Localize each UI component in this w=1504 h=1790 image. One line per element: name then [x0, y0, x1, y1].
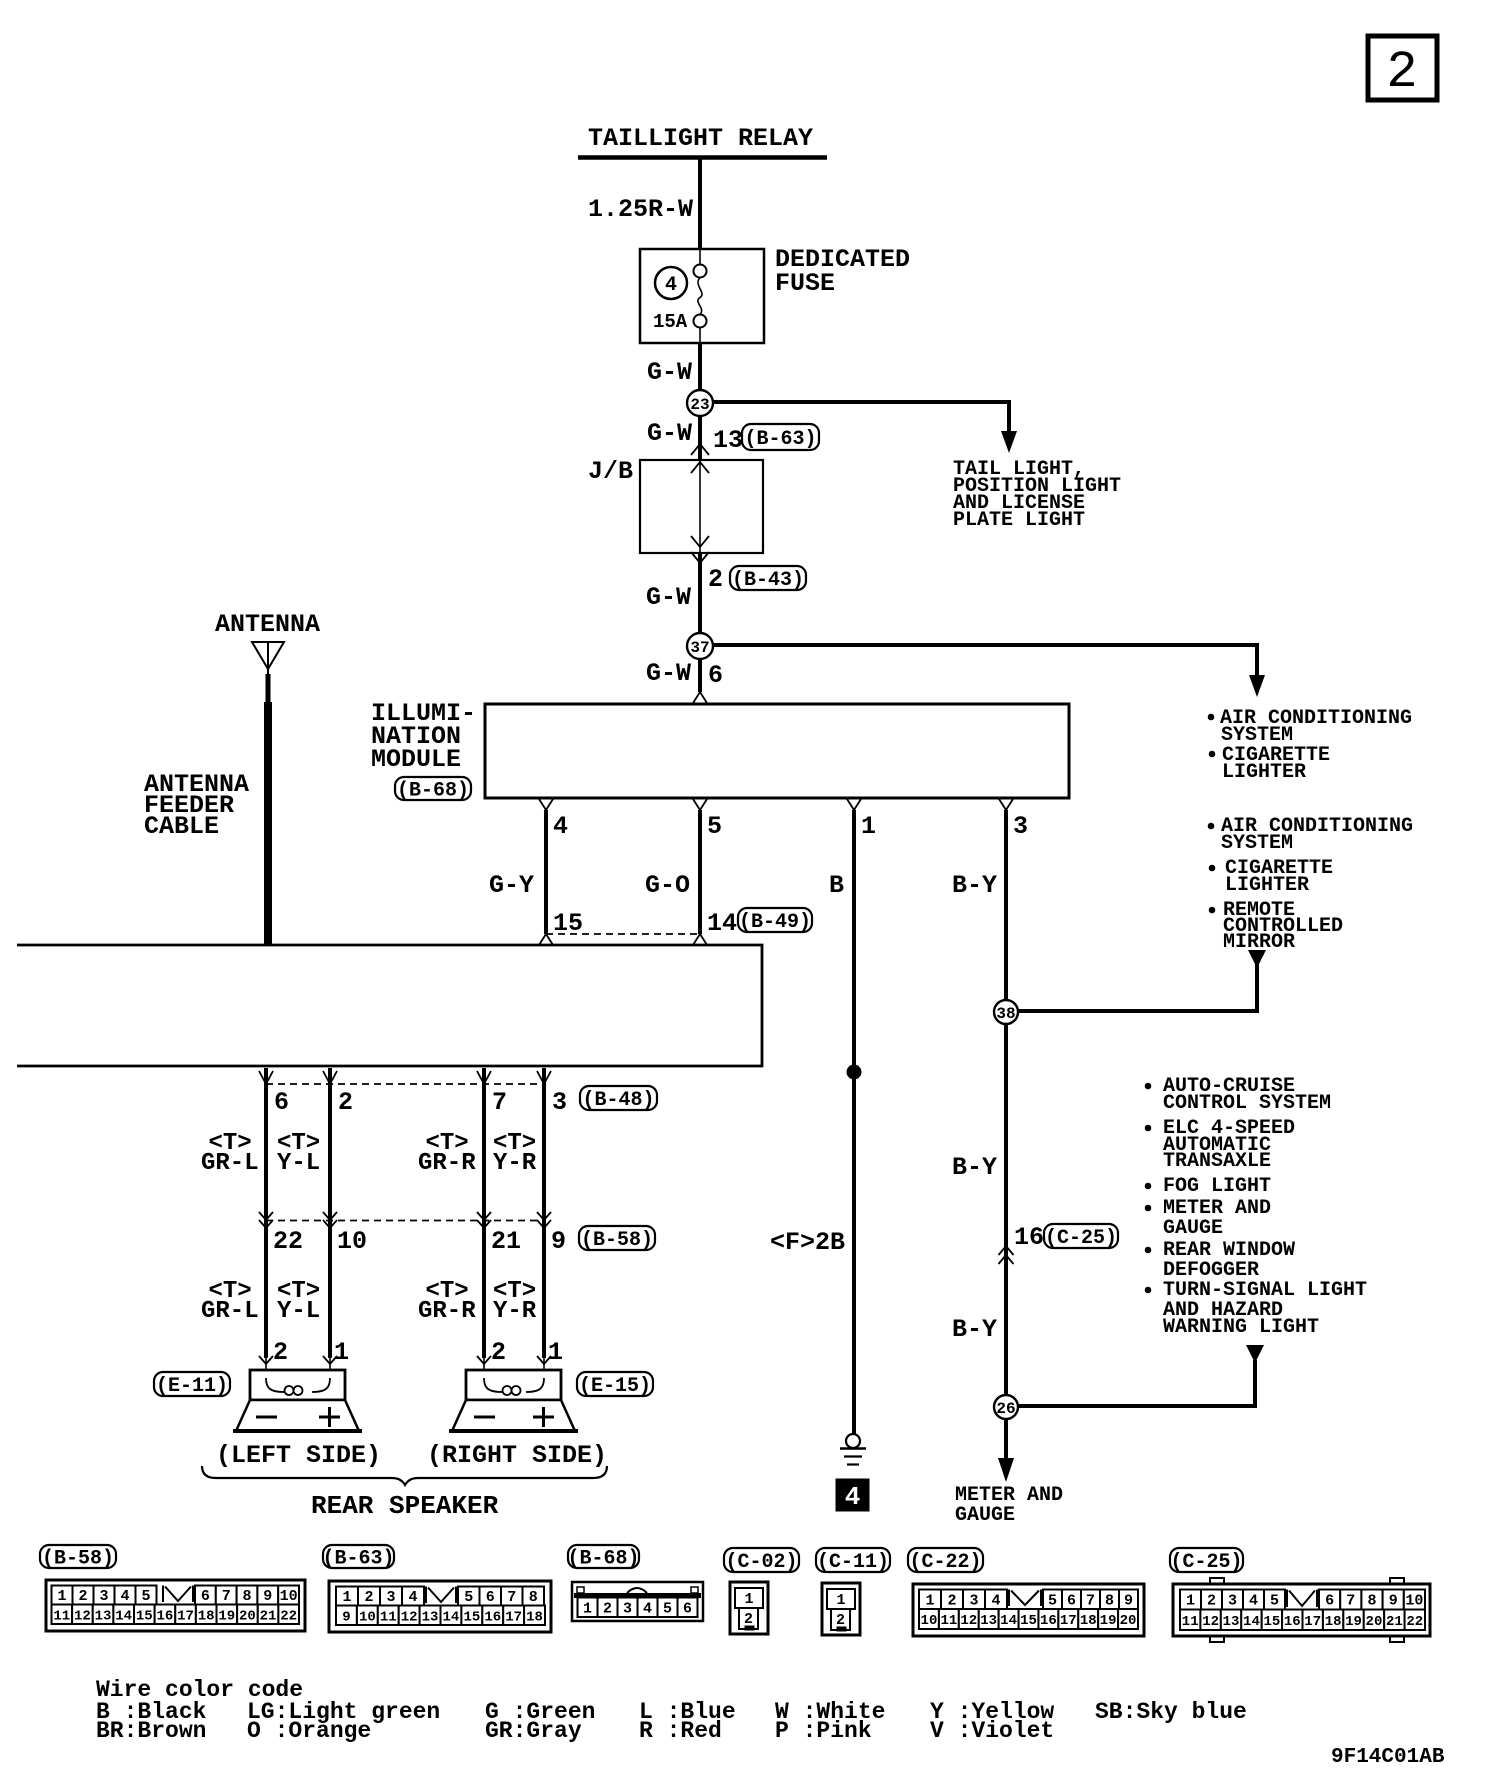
svg-text:19: 19 [1100, 1613, 1117, 1629]
load list from node 37 [1208, 707, 1412, 784]
svg-text:13: 13 [1223, 1614, 1240, 1630]
antenna feeder cable [264, 702, 272, 945]
illumination module box [485, 704, 1069, 798]
ground symbol [840, 1434, 866, 1465]
svg-text:4: 4 [1249, 1593, 1258, 1610]
svg-text:10: 10 [1405, 1593, 1423, 1610]
svg-text:6: 6 [201, 1588, 210, 1605]
svg-text:(C-22): (C-22) [909, 1551, 981, 1574]
svg-text:9: 9 [1389, 1593, 1398, 1610]
svg-text:LIGHTER: LIGHTER [1225, 874, 1309, 897]
pin label 10 mid [337, 1227, 367, 1256]
svg-text:(B-43): (B-43) [732, 569, 804, 592]
svg-text:GAUGE: GAUGE [1163, 1217, 1223, 1240]
pin label 2 below J/B [708, 565, 723, 594]
antenna label [215, 610, 320, 639]
pin label 7 top [492, 1088, 507, 1117]
svg-text:1: 1 [861, 812, 876, 841]
svg-text:16: 16 [1284, 1614, 1301, 1630]
pin label 1 left speaker [334, 1338, 349, 1367]
svg-text:4: 4 [553, 812, 568, 841]
svg-text:16: 16 [157, 1608, 174, 1624]
svg-text:1: 1 [342, 1589, 351, 1606]
svg-text:19: 19 [1345, 1614, 1362, 1630]
load list from node 38 [1208, 815, 1413, 954]
svg-text:CONTROL SYSTEM: CONTROL SYSTEM [1163, 1092, 1331, 1115]
svg-text:<F>2B: <F>2B [770, 1228, 845, 1257]
branch wire node 26 to turn-signal [1018, 1345, 1264, 1406]
chevron above J/B [691, 444, 709, 455]
wire B pin 1 to ground [852, 810, 856, 1434]
svg-text:17: 17 [1060, 1613, 1077, 1629]
right rear speaker plus terminal [533, 1407, 554, 1427]
svg-text:21: 21 [491, 1227, 521, 1256]
svg-text:9F14C01AB: 9F14C01AB [1331, 1746, 1445, 1769]
svg-text:9: 9 [263, 1588, 272, 1605]
connector ref E-15 [577, 1372, 653, 1398]
pin label 14 [707, 909, 737, 938]
svg-text:(RIGHT SIDE): (RIGHT SIDE) [427, 1441, 607, 1470]
svg-text:1: 1 [925, 1592, 934, 1609]
svg-text:G-O: G-O [645, 871, 690, 900]
svg-text:13: 13 [713, 426, 743, 455]
branch wire node 38 to remote mirror [1018, 950, 1266, 1011]
wire label G-W above J/B [647, 419, 692, 448]
svg-text:20: 20 [1366, 1614, 1383, 1630]
svg-text:12: 12 [74, 1608, 91, 1624]
svg-text:20: 20 [1120, 1613, 1137, 1629]
left rear speaker terminal box [250, 1370, 345, 1400]
svg-text:(C-02): (C-02) [725, 1551, 797, 1574]
svg-text:11: 11 [380, 1609, 397, 1625]
svg-text:10: 10 [280, 1588, 298, 1605]
svg-text:G-W: G-W [647, 419, 692, 448]
junction block J/B label [588, 457, 633, 486]
dashed junction line B-58 [266, 1220, 544, 1222]
wire 1.25R-W from taillight relay [698, 159, 702, 250]
svg-text:(B-58): (B-58) [42, 1547, 114, 1570]
rear speaker wire GR-L [259, 1068, 273, 1378]
svg-text:14: 14 [1000, 1613, 1017, 1629]
svg-text:5: 5 [707, 812, 722, 841]
svg-text:BR:Brown: BR:Brown [96, 1718, 206, 1744]
svg-text:11: 11 [53, 1608, 70, 1624]
connector ref B-68 label [395, 777, 471, 802]
svg-text:11: 11 [940, 1613, 957, 1629]
svg-text:10: 10 [921, 1613, 938, 1629]
svg-text:GR-L: GR-L [201, 1298, 259, 1325]
connector ref B-63 inline [742, 424, 819, 451]
svg-text:13: 13 [980, 1613, 997, 1629]
connector B-68 label [567, 1545, 639, 1570]
svg-text:2: 2 [491, 1338, 506, 1367]
wire label B-Y upper [952, 871, 997, 900]
svg-text:Y-L: Y-L [277, 1298, 320, 1325]
svg-text:1.25R-W: 1.25R-W [588, 195, 693, 224]
fork pin 5 [693, 799, 707, 810]
page number 2 box [1368, 36, 1437, 102]
junction block J/B box [640, 460, 763, 553]
branch wire node 23 to tail light [713, 402, 1017, 453]
svg-text:38: 38 [996, 1005, 1015, 1023]
svg-text:3: 3 [99, 1588, 108, 1605]
svg-text:1: 1 [548, 1338, 563, 1367]
wire label G-Y [489, 871, 534, 900]
svg-text:P :Pink: P :Pink [775, 1718, 872, 1744]
pin label 6 top [274, 1088, 289, 1117]
svg-text:2: 2 [364, 1589, 373, 1606]
svg-text:3: 3 [552, 1088, 567, 1117]
right side label [427, 1441, 607, 1470]
antenna feeder cable label [144, 770, 249, 841]
svg-text:GAUGE: GAUGE [955, 1504, 1015, 1527]
svg-text:O :Orange: O :Orange [247, 1718, 371, 1744]
svg-text:18: 18 [198, 1608, 215, 1624]
arrow to meter and gauge [998, 1458, 1014, 1482]
svg-text:14: 14 [1243, 1614, 1260, 1630]
wire tag <T> Y-R row 1 [493, 1130, 537, 1177]
svg-text:15A: 15A [653, 311, 688, 333]
svg-text:3: 3 [386, 1589, 395, 1606]
right rear speaker minus terminal [474, 1416, 495, 1419]
svg-text:8: 8 [1105, 1592, 1114, 1609]
svg-text:13: 13 [422, 1609, 439, 1625]
svg-text:10: 10 [337, 1227, 367, 1256]
junction dot on wire B [847, 1065, 861, 1079]
svg-text:G-W: G-W [646, 659, 691, 688]
fork pin 5 lower [693, 934, 707, 945]
svg-text:(B-58): (B-58) [581, 1229, 653, 1252]
svg-text:G-W: G-W [647, 358, 692, 387]
svg-text:4: 4 [845, 1482, 861, 1512]
connector B-58 label [40, 1545, 116, 1570]
svg-text:SYSTEM: SYSTEM [1221, 832, 1293, 855]
connector ref E-11 [154, 1372, 230, 1398]
svg-text:(B-48): (B-48) [582, 1089, 654, 1112]
wire tag <T> Y-R row 2 [493, 1278, 537, 1325]
svg-text:12: 12 [960, 1613, 977, 1629]
svg-text:5: 5 [141, 1588, 150, 1605]
svg-text:Y-R: Y-R [493, 1298, 537, 1325]
wire label G-O [645, 871, 690, 900]
svg-text:R :Red: R :Red [639, 1718, 722, 1744]
svg-text:1: 1 [57, 1588, 66, 1605]
node 37 [687, 633, 713, 659]
svg-text:14: 14 [707, 909, 737, 938]
wire label B-Y lower [952, 1315, 997, 1344]
svg-text:GR-L: GR-L [201, 1150, 259, 1177]
left rear speaker plus terminal [319, 1407, 340, 1427]
svg-text:4: 4 [991, 1592, 1000, 1609]
pin label 5 [707, 812, 722, 841]
svg-text:B-Y: B-Y [952, 1153, 997, 1182]
svg-text:(C-25): (C-25) [1170, 1551, 1242, 1574]
wire G-W fuse to node 23 [698, 343, 702, 460]
svg-text:MODULE: MODULE [371, 745, 461, 774]
wire G-Y pin 4 [544, 810, 548, 934]
chevron below J/B [691, 552, 709, 563]
rear speaker wire Y-L [323, 1068, 337, 1378]
svg-text:FUSE: FUSE [775, 269, 835, 298]
wire tag <T> GR-R row 1 [418, 1130, 476, 1177]
pin label 1 [861, 812, 876, 841]
svg-text:TRANSAXLE: TRANSAXLE [1163, 1150, 1271, 1173]
svg-text:16: 16 [1014, 1223, 1044, 1252]
svg-text:10: 10 [359, 1609, 376, 1625]
svg-text:LIGHTER: LIGHTER [1222, 761, 1306, 784]
wire label F 2B [770, 1228, 845, 1257]
svg-text:3: 3 [1013, 812, 1028, 841]
svg-text:1: 1 [1186, 1593, 1195, 1610]
dedicated fuse box [640, 249, 764, 343]
svg-text:(LEFT SIDE): (LEFT SIDE) [216, 1441, 381, 1470]
connector ref B-58 inline [579, 1226, 655, 1252]
svg-text:PLATE LIGHT: PLATE LIGHT [953, 509, 1085, 532]
drawing number [1331, 1746, 1445, 1769]
dashed junction line B-48 [266, 1083, 544, 1085]
svg-text:12: 12 [401, 1609, 418, 1625]
fork pin 4 [539, 799, 553, 810]
left rear speaker cone [233, 1400, 362, 1431]
tail light position light list [953, 458, 1121, 532]
svg-text:6: 6 [486, 1589, 495, 1606]
svg-text:2: 2 [744, 1611, 753, 1628]
fork pin 6 into module [693, 692, 707, 703]
svg-text:4: 4 [665, 274, 677, 297]
pin label 13 [713, 426, 743, 455]
wire G-W J/B to module [698, 553, 702, 692]
right rear speaker terminal box [466, 1370, 561, 1400]
svg-text:7: 7 [1346, 1593, 1355, 1610]
radio cassette box (unnamed, open left) [17, 945, 762, 1066]
svg-text:7: 7 [492, 1088, 507, 1117]
svg-text:6: 6 [1325, 1593, 1334, 1610]
svg-text:13: 13 [95, 1608, 112, 1624]
connector C-25 label [1170, 1548, 1243, 1574]
svg-text:GR-R: GR-R [418, 1298, 476, 1325]
svg-text:(B-68): (B-68) [567, 1547, 639, 1570]
svg-text:3: 3 [1228, 1593, 1237, 1610]
pin label 4 [553, 812, 568, 841]
svg-text:ANTENNA: ANTENNA [215, 610, 320, 639]
pin label 6 [708, 661, 723, 690]
connector ref B-43 inline [730, 566, 806, 592]
svg-text:5: 5 [1048, 1592, 1057, 1609]
svg-text:8: 8 [1367, 1593, 1376, 1610]
wire label 1.25R-W [588, 195, 693, 224]
svg-text:17: 17 [1304, 1614, 1321, 1630]
svg-text:2: 2 [1386, 43, 1417, 102]
svg-text:5: 5 [663, 1600, 672, 1617]
svg-text:TAILLIGHT RELAY: TAILLIGHT RELAY [588, 124, 813, 153]
wire tag <T> GR-R row 2 [418, 1278, 476, 1325]
dashed junction line B-49 [546, 933, 700, 935]
svg-text:B-Y: B-Y [952, 871, 997, 900]
pin label 3 top [552, 1088, 567, 1117]
svg-text:11: 11 [1182, 1614, 1199, 1630]
wire tag <T> GR-L row 2 [201, 1278, 259, 1325]
load list from node 26 [1145, 1075, 1367, 1339]
pin label 16 [1014, 1223, 1044, 1252]
svg-text:4: 4 [408, 1589, 417, 1606]
svg-text:9: 9 [1124, 1592, 1133, 1609]
svg-text:SB:Sky blue: SB:Sky blue [1095, 1699, 1247, 1725]
svg-text:14: 14 [443, 1609, 460, 1625]
svg-text:17: 17 [505, 1609, 522, 1625]
connector ref B-49 inline [738, 908, 812, 934]
svg-text:18: 18 [526, 1609, 543, 1625]
svg-text:1: 1 [583, 1600, 592, 1617]
pin label 2 top [338, 1088, 353, 1117]
illumination module label [371, 699, 476, 774]
svg-text:CABLE: CABLE [144, 812, 219, 841]
svg-text:2: 2 [273, 1338, 288, 1367]
svg-text:(B-63): (B-63) [744, 428, 816, 451]
pin label 22 mid [273, 1227, 303, 1256]
svg-text:(B-68): (B-68) [397, 779, 469, 802]
fork pin 4 lower [539, 934, 553, 945]
right rear speaker voice coil [484, 1378, 544, 1395]
pin label 1 right speaker [548, 1338, 563, 1367]
svg-text:5: 5 [464, 1589, 473, 1606]
pin label 3 [1013, 812, 1028, 841]
svg-text:16: 16 [484, 1609, 501, 1625]
svg-text:2: 2 [603, 1600, 612, 1617]
pin label 2 left speaker [273, 1338, 288, 1367]
svg-text:G-Y: G-Y [489, 871, 534, 900]
connector C-02 pinout [730, 1582, 768, 1634]
svg-text:16: 16 [1040, 1613, 1057, 1629]
connector B-63 pinout [329, 1581, 551, 1632]
wire label G-W upper [647, 358, 692, 387]
svg-text:18: 18 [1080, 1613, 1097, 1629]
svg-text:20: 20 [239, 1608, 256, 1624]
pin label 21 mid [491, 1227, 521, 1256]
svg-text:7: 7 [1086, 1592, 1095, 1609]
connector B-58 pinout [46, 1580, 305, 1631]
svg-text:2: 2 [708, 565, 723, 594]
svg-text:REAR SPEAKER: REAR SPEAKER [311, 1491, 499, 1521]
svg-text:6: 6 [683, 1600, 692, 1617]
fuse rating 15A [653, 311, 688, 333]
svg-text:26: 26 [996, 1400, 1015, 1418]
svg-text:2: 2 [836, 1612, 845, 1629]
wire label G-W at module [646, 659, 691, 688]
svg-text:2: 2 [78, 1588, 87, 1605]
svg-text:22: 22 [1406, 1614, 1423, 1630]
fork pin 3 [999, 799, 1013, 810]
dedicated fuse label [775, 245, 910, 298]
wire color code legend [96, 1677, 1247, 1744]
wire label G-W below J/B [646, 583, 691, 612]
svg-text:21: 21 [260, 1608, 277, 1624]
svg-text:(E-11): (E-11) [156, 1375, 228, 1398]
wire B-Y pin 3 [1004, 810, 1008, 1460]
rear speaker wire Y-R [537, 1068, 551, 1378]
svg-text:B: B [829, 871, 844, 900]
svg-text:6: 6 [274, 1088, 289, 1117]
taillight relay header label [578, 124, 827, 158]
connector ref B-48 inline [580, 1086, 657, 1112]
left rear speaker minus terminal [256, 1416, 277, 1419]
svg-text:(E-15): (E-15) [579, 1375, 651, 1398]
left side label [216, 1441, 381, 1470]
svg-text:V :Violet: V :Violet [930, 1718, 1054, 1744]
rear speaker wire GR-R [477, 1068, 491, 1378]
svg-text:15: 15 [1020, 1613, 1037, 1629]
connector C-22 label [908, 1548, 983, 1574]
svg-text:2: 2 [947, 1592, 956, 1609]
svg-text:14: 14 [115, 1608, 132, 1624]
svg-text:G-W: G-W [646, 583, 691, 612]
svg-text:19: 19 [218, 1608, 235, 1624]
connector C-22 pinout [913, 1584, 1144, 1636]
connector B-63 label [322, 1545, 394, 1570]
right rear speaker cone [449, 1400, 578, 1431]
pin label 2 right speaker [491, 1338, 506, 1367]
svg-text:WARNING LIGHT: WARNING LIGHT [1163, 1316, 1319, 1339]
branch wire node 37 to air conditioning [713, 645, 1265, 697]
wire tag <T> GR-L row 1 [201, 1130, 259, 1177]
svg-text:2: 2 [1207, 1593, 1216, 1610]
svg-text:1: 1 [334, 1338, 349, 1367]
wire through J/B [699, 460, 701, 553]
svg-text:22: 22 [273, 1227, 303, 1256]
svg-text:7: 7 [222, 1588, 231, 1605]
antenna symbol [252, 642, 284, 702]
svg-text:3: 3 [969, 1592, 978, 1609]
svg-text:8: 8 [242, 1588, 251, 1605]
node 23 [687, 390, 713, 416]
pin label 15 [553, 909, 583, 938]
svg-text:Y-L: Y-L [277, 1150, 320, 1177]
svg-text:17: 17 [177, 1608, 194, 1624]
svg-text:15: 15 [136, 1608, 153, 1624]
pin label 9 mid [551, 1227, 566, 1256]
svg-text:1: 1 [744, 1591, 753, 1608]
svg-text:12: 12 [1202, 1614, 1219, 1630]
svg-text:15: 15 [1263, 1614, 1280, 1630]
svg-text:(B-63): (B-63) [322, 1547, 394, 1570]
svg-text:8: 8 [529, 1589, 538, 1606]
chevron inside J/B top [691, 462, 709, 473]
svg-text:J/B: J/B [588, 457, 633, 486]
connector C-11 pinout [822, 1583, 860, 1635]
rear speaker label [311, 1491, 499, 1521]
wire tag <T> Y-L row 2 [277, 1278, 320, 1325]
fork pin 1 [847, 799, 861, 810]
fuse element [694, 249, 707, 343]
svg-text:9: 9 [551, 1227, 566, 1256]
svg-text:15: 15 [553, 909, 583, 938]
wire G-O pin 5 [698, 810, 702, 934]
svg-text:4: 4 [120, 1588, 129, 1605]
connector C-11 label [816, 1548, 890, 1574]
node 38 [994, 1000, 1018, 1024]
svg-text:GR:Gray: GR:Gray [485, 1718, 582, 1744]
connector ref C-25 inline [1044, 1224, 1118, 1250]
wire label B-Y middle [952, 1153, 997, 1182]
chevron inside J/B bottom [691, 536, 709, 547]
svg-text:21: 21 [1386, 1614, 1403, 1630]
svg-text:5: 5 [1270, 1593, 1279, 1610]
svg-text:15: 15 [463, 1609, 480, 1625]
ground ref 4 black box [836, 1479, 869, 1512]
svg-text:(C-11): (C-11) [817, 1551, 889, 1574]
svg-text:22: 22 [280, 1608, 297, 1624]
svg-text:7: 7 [507, 1589, 516, 1606]
svg-text:B-Y: B-Y [952, 1315, 997, 1344]
